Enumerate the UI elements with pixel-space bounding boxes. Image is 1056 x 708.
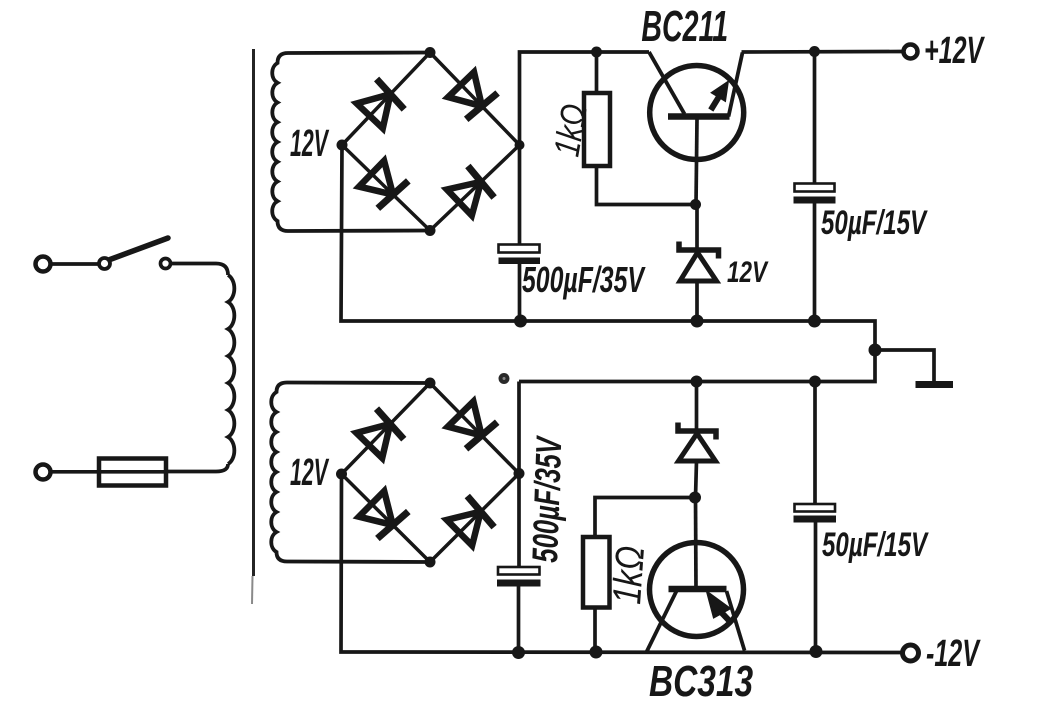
node C4 bus [809, 376, 821, 388]
wire primary bottom to fuse [166, 464, 228, 472]
capacitor C3 bottom lead [517, 587, 521, 653]
transistor Q2 BC313 circle [650, 543, 744, 637]
capacitor C2 50uF/15V plates [795, 184, 835, 192]
node bridge B1 right [515, 140, 525, 150]
bridge rectifier B2 wires [342, 383, 520, 562]
svg-text:50µF/15V: 50µF/15V [821, 204, 928, 242]
+12V output terminal [904, 45, 918, 59]
stray print dot artifact [499, 373, 510, 384]
wire transistor emitter to +12V terminal [742, 50, 903, 54]
svg-text:BC211: BC211 [641, 1, 728, 51]
zener D6 lead to base node [696, 461, 697, 498]
svg-text:12V: 12V [290, 450, 330, 493]
capacitor C4 50uF/15V plates [795, 504, 836, 512]
svg-text:+12V: +12V [924, 29, 985, 71]
svg-text:-12V: -12V [926, 632, 981, 674]
-12V output terminal [903, 645, 919, 661]
transistor Q1 base bar [668, 113, 730, 120]
node bridge B2 top [425, 378, 436, 389]
svg-text:500µF/35V: 500µF/35V [522, 259, 646, 300]
node ground junction [869, 344, 882, 357]
capacitor C3 500uF/35V plates [498, 567, 540, 575]
switch S1 lever [110, 238, 168, 260]
transformer secondary winding 1 [272, 53, 430, 232]
0V lower bus wire [519, 350, 875, 382]
zener diode D5 lead [695, 205, 699, 251]
transistor Q2 collector diagonal [647, 591, 677, 652]
transistor Q2 base bar [669, 586, 727, 593]
wire bridge B1 + output up and right to resistor node [520, 52, 650, 145]
svg-text:12V: 12V [727, 255, 769, 289]
node bridge B1 top [425, 47, 436, 58]
transistor Q2 emitter arrow (PNP, points to base) [708, 593, 730, 618]
diode B1d [447, 166, 494, 216]
diode B2b [448, 402, 497, 449]
transistor Q1 base lead down [696, 119, 697, 205]
resistor R1 top lead [595, 52, 599, 93]
node R2 bottom bus [590, 646, 603, 659]
resistor R1 1kOhm [584, 93, 610, 166]
capacitor C4 bottom lead [814, 523, 818, 652]
diode B1c [359, 161, 408, 209]
node Q1 base [690, 199, 701, 210]
resistor R2 bottom lead [593, 608, 597, 653]
capacitor C1 bottom lead [518, 264, 522, 321]
wire junction to ground [875, 350, 934, 381]
svg-text:12V: 12V [290, 121, 330, 164]
wire switch to transformer primary [171, 264, 228, 276]
transistor Q1 emitter arrow [712, 83, 727, 101]
transistor Q1 collector diagonal [649, 52, 685, 114]
node D5 bus [691, 315, 704, 328]
transistor Q2 base lead [694, 498, 698, 590]
zener diode D6 [678, 423, 716, 440]
resistor R2 1kOhm [583, 537, 610, 608]
-12V bottom bus wire [341, 474, 902, 653]
svg-text:500µF/35V: 500µF/35V [525, 435, 570, 564]
fuse F1 body [99, 459, 166, 486]
zener diode D5 [679, 242, 719, 259]
node bridge B2 left [336, 469, 347, 480]
svg-text:50µF/15V: 50µF/15V [822, 526, 929, 564]
zener diode D6 lead from bus [695, 382, 699, 432]
capacitor C1 500uF/35V plates [499, 245, 540, 253]
wire terminal to switch [51, 262, 98, 266]
diode B2c [359, 491, 408, 538]
wire base node to resistor R2 [595, 498, 696, 538]
0V upper bus wire [341, 145, 875, 350]
switch S1 throw contact [161, 259, 171, 269]
ground symbol [916, 381, 954, 388]
transistor Q1 emitter diagonal [729, 53, 743, 117]
node bridge B2 right [514, 468, 525, 479]
smoothing capacitor C1 top lead [518, 145, 522, 245]
resistor R1 bottom lead to base node [597, 166, 696, 205]
node Q2 base [689, 492, 701, 504]
node C2 bus [808, 315, 821, 328]
node D6 bus [691, 376, 703, 388]
node C2 top [809, 46, 820, 57]
switch S1 pole [99, 258, 110, 269]
svg-text:BC313: BC313 [649, 658, 753, 706]
input terminal bottom [36, 465, 51, 480]
transformer primary winding [228, 275, 234, 464]
diode B1a [357, 79, 405, 128]
node C4 bottom bus [810, 645, 823, 658]
bridge rectifier B1 wires [342, 53, 520, 231]
node bridge B1 bottom [425, 225, 436, 236]
zener D5 lead to bus [695, 281, 699, 321]
diode B2a [356, 409, 403, 458]
wire fuse to bottom terminal [50, 470, 98, 474]
node C1 bus [514, 315, 527, 328]
transformer core [252, 49, 255, 576]
output capacitor C2 top lead [813, 52, 817, 184]
capacitor C2 bottom lead [813, 204, 817, 322]
svg-text:1kΩ: 1kΩ [604, 544, 653, 605]
node C3 bottom bus [512, 646, 525, 659]
diode B2d [447, 496, 494, 546]
node R1 top [591, 47, 602, 58]
node bridge B1 left [337, 140, 348, 151]
diode B1b [448, 72, 498, 119]
transistor Q1 BC211 circle [650, 66, 744, 160]
output capacitor C4 top lead [813, 382, 817, 505]
node bridge B2 bottom [425, 557, 436, 568]
transformer secondary winding 2 [271, 383, 430, 563]
smoothing capacitor C3 top lead [517, 474, 521, 568]
fuse F1 element line [98, 470, 166, 474]
input terminal top [36, 257, 51, 272]
wire lower bus corner down to bridge B2 [517, 382, 521, 474]
transistor Q2 emitter diagonal [727, 591, 745, 651]
